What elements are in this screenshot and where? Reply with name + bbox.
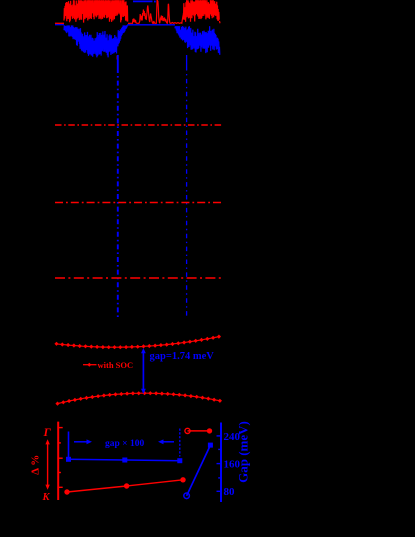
svg-text:with SOC: with SOC [98,360,134,370]
wire: top panel flat baseline red [55,22,64,24]
lower band curve (with SOC) [58,393,220,403]
vertical blue dashed line left (domain wall) [117,55,119,68]
svg-text:K: K [42,492,51,503]
upper band curve (with SOC) [57,336,221,347]
vertical blue dashed line right (domain wall) [186,55,188,66]
red specks top [157,0,158,3]
legend diamond marker [87,363,91,367]
legend marker line with SOC [83,364,97,366]
red dash-dot horizontal line 3 [55,277,222,279]
red dash-dot horizontal line 1 [55,124,222,126]
svg-text:gap × 100: gap × 100 [105,439,144,449]
bottom panel right axis (blue) [220,423,222,503]
svg-text:Δ %: Δ % [30,455,42,475]
bottom panel left axis (red) [57,422,59,500]
red trace right noisy section [184,0,220,22]
wire: top panel flat baseline blue [55,24,64,26]
red series Delta line [67,480,183,492]
filled blue square marker [208,443,213,448]
blue square markers [66,457,182,463]
blue horizontal segment top [133,0,153,2]
red dash-dot horizontal line 2 [55,202,222,204]
blue trace right noisy section [175,26,220,55]
filled red circle marker [207,428,212,433]
blue arrow pointing left [158,439,174,444]
red trace middle bumps [128,0,184,23]
lower band diamond markers [55,391,222,406]
open blue circle marker [184,493,190,499]
red circle markers [64,477,185,495]
left axis ticks [58,428,63,488]
svg-text:Γ: Γ [43,425,52,439]
upper band diamond markers [54,335,221,350]
svg-text:gap=1.74 meV: gap=1.74 meV [150,351,215,362]
blue trace left noisy section [64,25,127,57]
blue dot top [154,1,156,3]
blue trace middle flat segment [127,24,175,26]
right axis ticks [217,436,222,491]
blue bracket left bar [68,432,70,458]
red top segment (gap at Gamma) [188,430,210,432]
red trace left noisy section [64,0,128,22]
open red circle marker [185,428,190,433]
blue diagonal series [187,445,211,496]
svg-text:80: 80 [224,486,236,498]
blue series gap x 100 line [69,459,180,460]
blue arrow pointing right [74,439,92,444]
red tick at top of left dashed line [116,56,118,60]
svg-text:Gap (meV): Gap (meV) [236,421,251,483]
red double arrow Gamma-K [45,439,49,490]
blue gap double arrow [141,348,146,394]
blue bracket right dashed bar [179,429,181,457]
red trace end drop [219,21,222,23]
